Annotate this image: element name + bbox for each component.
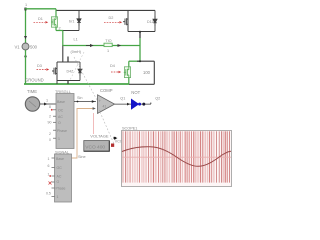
- wire: node A vertical green: [62, 31, 64, 47]
- end marker on output wire: [150, 103, 151, 104]
- svg-text:2: 2: [49, 115, 51, 119]
- wire: diode br1 branch: [78, 10, 80, 30]
- block U4 pin ticks: [52, 158, 55, 197]
- scope SCOPE1 plot frame: [122, 131, 232, 187]
- junction at output node: [139, 60, 141, 62]
- block U4 sine signal generator: [55, 154, 72, 202]
- wire: dark top rail: [56, 9, 155, 11]
- display meter VCO (value readout): [84, 141, 110, 152]
- wire: TIME output to TRIANGLE block: [40, 103, 56, 105]
- wire: sine reference (tan) from SIGNAL block to comparator: [72, 109, 95, 159]
- svg-text:Phase: Phase: [56, 187, 66, 191]
- block U1 pin ticks: [53, 110, 56, 138]
- dashed gate link line to comparator: [74, 57, 97, 100]
- wire: module2 bottom: [128, 31, 155, 33]
- svg-text:Phase: Phase: [57, 129, 67, 133]
- svg-text:1: 1: [57, 195, 59, 199]
- current arrow after TIO: [118, 44, 122, 47]
- svg-text:TIO: TIO: [105, 39, 111, 43]
- svg-text:500: 500: [30, 44, 38, 49]
- block U4 pin value labels: [46, 157, 51, 196]
- current arrow above V1: [24, 36, 27, 39]
- svg-text:2: 2: [59, 26, 61, 30]
- arrow into NOT gate: [127, 103, 130, 106]
- dashed gate link line to S3: [70, 52, 84, 80]
- transistor S3 (bottom-left IGBT): [52, 65, 57, 77]
- voltage source V1: [22, 43, 29, 50]
- svg-text:Base: Base: [56, 157, 64, 161]
- svg-text:D1Z: D1Z: [147, 20, 155, 24]
- red probe line below comparator: [93, 113, 95, 134]
- svg-text:AC: AC: [57, 175, 62, 179]
- wire: node B stub dark: [139, 32, 141, 39]
- svg-text:Base: Base: [57, 100, 65, 104]
- svg-text:TIME: TIME: [27, 89, 37, 94]
- wire: inductor L1 line (green): [63, 45, 140, 47]
- svg-text:OC: OC: [58, 109, 64, 113]
- scope sine trace: [122, 147, 231, 167]
- wire: S4 emitter stub: [128, 78, 130, 84]
- block U4 pin name labels: [56, 157, 66, 199]
- wire: S3 branch: [56, 62, 58, 81]
- wire: S4 collector stub: [128, 61, 130, 67]
- svg-text:Q2: Q2: [155, 97, 160, 101]
- svg-text:41: 41: [103, 105, 107, 109]
- wire: S2 branch: [127, 10, 129, 31]
- wire: module3 ground stub: [67, 81, 69, 85]
- wire: load bottom: [129, 83, 154, 85]
- wire: green vertical from V1 to top rail: [25, 9, 27, 43]
- dashed link comparator to scope input: [100, 112, 114, 144]
- junction node B: [139, 31, 141, 33]
- svg-text:1: 1: [58, 137, 60, 141]
- svg-text:OC: OC: [57, 166, 63, 170]
- svg-text:(0mH): (0mH): [71, 50, 82, 54]
- svg-text:O: O: [58, 121, 61, 125]
- wire: Sin output to comparator: [74, 101, 96, 103]
- svg-text:br1: br1: [69, 20, 75, 24]
- transistor S2 (top-right IGBT): [123, 16, 128, 28]
- svg-text:0: 0: [49, 138, 51, 142]
- wire: module3 left ground stub: [56, 81, 58, 85]
- comparator U2 COMP: [98, 95, 115, 114]
- gate link arrow D3: [37, 69, 47, 71]
- current arrow below V1: [24, 56, 27, 59]
- svg-text:1: 1: [107, 49, 109, 53]
- wire: load top: [137, 60, 154, 62]
- block U4 error marker (red X): [49, 182, 52, 185]
- wire: green vertical V1 to ground rail: [25, 50, 27, 84]
- svg-text:0.5: 0.5: [46, 192, 51, 196]
- svg-text:D1: D1: [38, 17, 43, 21]
- junction dot after NOT gate: [142, 103, 145, 106]
- svg-text:1: 1: [48, 173, 50, 177]
- diode br1: [77, 16, 81, 26]
- arrow into comparator minus input: [93, 107, 96, 110]
- svg-text:NOT: NOT: [131, 90, 140, 95]
- current arrow on L1 line: [86, 45, 91, 47]
- transistor S4 (bottom-right IGBT, selected): [124, 67, 130, 78]
- wire: output node horizontal green: [129, 60, 140, 62]
- gate link arrow D2: [104, 21, 119, 23]
- junction on Sin wire: [77, 101, 79, 103]
- block U1 OC pin marker (red): [51, 109, 53, 111]
- wire: node B vertical green: [139, 38, 141, 61]
- arrow into comparator plus input: [92, 100, 95, 103]
- gate link arrow D1: [34, 21, 46, 23]
- source block TIME (clock): [25, 97, 39, 111]
- wire: module1 bottom dark segment: [63, 30, 79, 32]
- svg-text:D4: D4: [110, 64, 115, 68]
- wire: S1 emitter stub: [55, 27, 57, 30]
- wire: comparator output: [115, 103, 151, 105]
- block U1 pin name labels: [57, 100, 67, 141]
- svg-text:1: 1: [46, 98, 48, 102]
- svg-text:1: 1: [25, 3, 27, 7]
- svg-text:D2: D2: [109, 16, 114, 20]
- diode br2: [153, 16, 157, 26]
- block U4 AC pin marker (red): [49, 175, 51, 177]
- svg-text:2: 2: [49, 132, 51, 136]
- wire: diode D4Z branch: [79, 62, 81, 81]
- block U1 triangle generator: [56, 94, 74, 149]
- scope input arrow: [114, 137, 118, 140]
- svg-text:Sine: Sine: [78, 155, 86, 159]
- transistor S1 (top-left IGBT, selected): [51, 17, 57, 27]
- resistor RLOAD right branch: [153, 61, 155, 84]
- wire: green ground rail: [24, 83, 129, 85]
- svg-text:D3: D3: [37, 64, 42, 68]
- wire: green top rail horizontal: [25, 8, 56, 10]
- svg-text:90: 90: [48, 121, 52, 125]
- wire: module3 top: [57, 61, 80, 63]
- svg-text:6: 6: [48, 164, 50, 168]
- junction at top-left corner: [24, 8, 26, 11]
- svg-text:V1: V1: [15, 44, 21, 49]
- wire: module1 bottom green segment: [56, 30, 63, 32]
- inverter U3 NOT gate: [132, 100, 139, 109]
- svg-text:VCO 400: VCO 400: [85, 145, 105, 151]
- svg-text:COMP: COMP: [100, 88, 113, 93]
- diode D4Z: [78, 66, 82, 76]
- svg-text:O: O: [57, 180, 60, 184]
- svg-text:VOLTAGE: VOLTAGE: [90, 134, 109, 139]
- wire: dark vertical below node A: [62, 46, 64, 63]
- wire: module3 top stub: [67, 57, 69, 63]
- svg-text:L1: L1: [74, 38, 78, 42]
- svg-text:Q1: Q1: [120, 97, 125, 101]
- scope input terminal (red square): [111, 144, 114, 147]
- svg-text:8: 8: [49, 105, 51, 109]
- resistor TIO (series, IEC box): [104, 43, 112, 46]
- gate link arrow D4: [111, 71, 118, 73]
- scope PWM waveform stripes: [123, 131, 230, 182]
- scope zero axis line: [122, 156, 231, 158]
- wire: diode br2 branch: [154, 10, 156, 31]
- svg-text:AC: AC: [58, 115, 63, 119]
- block U1 pin value labels: [48, 105, 52, 142]
- wire: module3 bottom: [57, 80, 80, 82]
- svg-text:SCOPE1: SCOPE1: [122, 126, 137, 130]
- svg-text:D4Z: D4Z: [67, 69, 75, 73]
- svg-text:100: 100: [143, 70, 151, 75]
- wire: S1 collector stub: [55, 9, 57, 17]
- svg-text:GROUND: GROUND: [25, 77, 44, 82]
- svg-text:1: 1: [48, 157, 50, 161]
- svg-text:Sin: Sin: [77, 96, 83, 100]
